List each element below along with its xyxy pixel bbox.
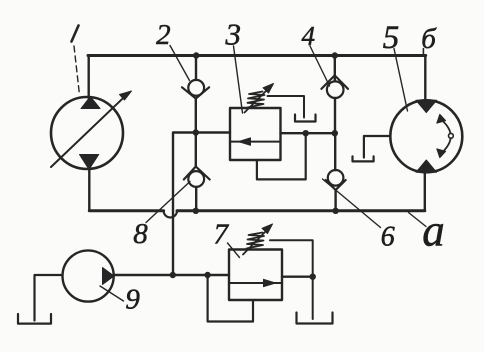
wire top bus [88,54,426,57]
wire pump1 bottom to bus [88,170,90,211]
tank (motor drain) [353,156,374,161]
wire pump9 suction [35,275,63,321]
node pump9 line x=208 [204,272,210,278]
node valve3 outlet at cv line [332,130,338,136]
valve 3 [230,84,281,161]
wire motor top to bus [424,56,426,101]
wire valve7 pilot loop [208,275,253,322]
label 8 leader [146,182,190,223]
label a leader [409,213,427,227]
node valve3 outlet pilot [303,130,309,136]
wire valve3 spring drain [268,96,305,118]
wire valve3 pilot loop [257,133,306,179]
wire valve3 outlet [281,132,335,134]
node top bus x=196 [193,52,199,58]
label 6 leader [323,179,381,228]
label 4 leader [310,46,330,86]
wire pump9 output [114,274,229,276]
node bottom bus x=336 [332,208,338,214]
wire motor drain [364,136,391,158]
wire motor bottom to bus [424,172,426,211]
wire valve7 outlet [282,276,313,278]
tank (pump9 suction) [18,314,51,324]
label 7 leader [228,243,240,258]
svg-text:8: 8 [133,218,148,250]
wire valve3 inlet [196,131,230,133]
svg-text:a: a [422,206,445,256]
tank (valve3 drain) [295,115,316,122]
svg-text:6: 6 [381,222,395,253]
wire pump1 top to bus [87,56,89,99]
node top bus x=335 [332,52,338,58]
wire hop arc on bottom bus [164,211,177,218]
svg-text:2: 2 [156,19,171,51]
label 1 leader [72,26,79,42]
wire bottom bus (with hop gap) [89,209,425,212]
label 5 leader [394,49,408,112]
svg-text:7: 7 [213,219,229,251]
pump 9 [63,250,115,301]
check valve 2 [182,56,209,133]
svg-text:9: 9 [125,284,140,316]
valve 7 [229,224,282,300]
wire left branch to hop [173,133,196,276]
svg-text:3: 3 [225,17,242,52]
label b leader [422,49,424,57]
svg-text:б: б [421,23,437,55]
svg-text:5: 5 [383,20,400,56]
check valve 4 [321,56,348,134]
svg-text:4: 4 [301,21,315,51]
label 2 leader [170,46,190,81]
pump 1 [51,91,132,170]
node bottom bus x=196 [193,208,199,214]
node valve7 outlet [310,274,316,280]
motor 5 [390,100,462,172]
tank (valve7 drain) [297,313,333,324]
node mid junction x=196 [193,129,199,135]
check valve 6 [326,133,346,211]
node pump9 line x=173 [170,272,176,278]
check valve 8 [184,132,210,211]
label 3 leader [234,46,243,113]
wire valve7 spring drain [270,240,313,319]
label 9 leader [100,286,124,301]
